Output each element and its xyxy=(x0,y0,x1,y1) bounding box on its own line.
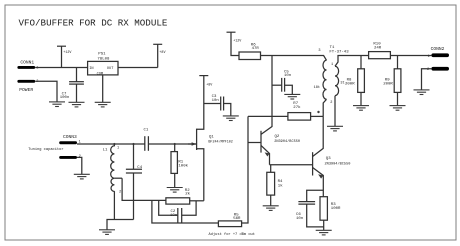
svg-text:+12V: +12V xyxy=(233,39,242,43)
svg-text:IN: IN xyxy=(89,67,93,71)
ground (C3) xyxy=(223,116,239,121)
capacitor C6 10n xyxy=(296,190,324,227)
svg-text:BF244/MPF102: BF244/MPF102 xyxy=(208,140,232,145)
svg-text:VFO/BUFFER FOR DC RX MODULE: VFO/BUFFER FOR DC RX MODULE xyxy=(19,18,168,29)
connector CONN2 xyxy=(427,46,449,72)
power +12V (left) xyxy=(57,46,72,67)
capacitor C3 10n xyxy=(204,95,231,116)
svg-text:10n: 10n xyxy=(170,214,178,218)
svg-text:FT-37-43: FT-37-43 xyxy=(329,50,349,54)
ground (Q3 emitter network) xyxy=(316,230,332,235)
regulator PS1 78L08 xyxy=(88,53,118,77)
resistor R8 200R xyxy=(345,56,364,106)
ground (CONN3 pin2) xyxy=(74,174,90,179)
power +8V (regulator output) xyxy=(153,44,166,67)
wire R5 to Q2 base riser xyxy=(242,116,248,223)
ground (R1) xyxy=(167,188,183,193)
ground (CONN2) xyxy=(414,90,430,95)
transistor Q2 2N3904 xyxy=(261,56,300,165)
svg-text:+8V: +8V xyxy=(159,51,166,55)
svg-text:1: 1 xyxy=(428,55,430,59)
svg-text:C4: C4 xyxy=(137,166,142,170)
svg-text:Tuning capacitor: Tuning capacitor xyxy=(28,147,63,152)
wire Q2 emitter to Q3 base xyxy=(270,164,313,166)
wire L1 bottom to ground rail xyxy=(107,191,134,229)
svg-text:Q3: Q3 xyxy=(326,157,331,161)
svg-text:200R: 200R xyxy=(345,82,355,86)
wire tap to source network xyxy=(122,178,166,200)
ground (C7) xyxy=(69,102,85,107)
svg-text:100n: 100n xyxy=(60,96,70,100)
svg-text:CONN3: CONN3 xyxy=(63,134,77,140)
svg-text:R4: R4 xyxy=(278,180,283,184)
ground (T1 secondary) xyxy=(327,126,343,131)
ground (regulator COM) xyxy=(95,102,111,107)
svg-text:+8V: +8V xyxy=(206,84,213,88)
svg-text:1k: 1k xyxy=(278,184,283,189)
node T1 bottom junction xyxy=(317,111,319,113)
wire CONN1 pin2 to ground xyxy=(35,81,57,102)
svg-text:10n: 10n xyxy=(212,99,220,103)
svg-text:47R: 47R xyxy=(252,47,260,51)
resistor R9 200R xyxy=(383,56,401,106)
title text xyxy=(19,18,168,29)
svg-text:100R: 100R xyxy=(331,207,341,211)
connector CONN1 xyxy=(17,59,38,93)
wire R2 right node to Q1 source xyxy=(190,200,204,202)
svg-text:Adjust for +7 dBm out: Adjust for +7 dBm out xyxy=(209,232,255,237)
svg-text:POWER: POWER xyxy=(19,87,33,93)
ground (R9) xyxy=(390,106,406,111)
wire CONN2 pin2 to ground xyxy=(422,69,432,90)
wire R6 to T1 primary top xyxy=(261,56,327,61)
capacitor C7 100n xyxy=(60,68,84,103)
node R1 junction xyxy=(174,143,176,145)
svg-text:27k: 27k xyxy=(293,105,301,110)
svg-text:+12V: +12V xyxy=(63,51,72,55)
transistor Q3 2N3904 xyxy=(313,116,351,196)
svg-text:1: 1 xyxy=(331,63,333,67)
wire T1 secondary top to attenuator xyxy=(335,56,369,67)
wire feedback rail to R7 xyxy=(248,115,288,117)
svg-text:PS1: PS1 xyxy=(98,53,106,57)
node L1 top junction xyxy=(113,143,115,145)
wire CONN3 pin2 to ground xyxy=(77,157,82,174)
transformer T1 FT-37-43 xyxy=(314,46,350,105)
svg-text:2k: 2k xyxy=(185,191,190,196)
power +12V (right) xyxy=(227,32,243,55)
svg-text:2: 2 xyxy=(330,101,332,105)
resistor R1 100k xyxy=(171,144,189,187)
wire T1 secondary bottom to ground xyxy=(334,96,336,127)
svg-text:1: 1 xyxy=(117,147,119,151)
svg-text:56R: 56R xyxy=(233,217,241,221)
power +8V (Q1 drain) xyxy=(199,76,213,104)
wire tank rail CONN3 to Q1 gate xyxy=(77,143,196,145)
svg-text:CONN2: CONN2 xyxy=(431,46,445,52)
svg-text:10n: 10n xyxy=(296,217,304,221)
ground (R4) xyxy=(263,206,279,211)
ground (R8) xyxy=(353,106,369,111)
ground (CONN1 pin2) xyxy=(49,102,65,107)
svg-text:3: 3 xyxy=(318,49,320,53)
svg-text:200R: 200R xyxy=(383,82,393,86)
svg-text:2N3904/BC550: 2N3904/BC550 xyxy=(325,161,351,166)
svg-text:24R: 24R xyxy=(374,47,382,51)
transistor Q1 BF244 JFET xyxy=(188,104,233,201)
resistor R4 1k xyxy=(267,165,283,206)
capacitor C1 xyxy=(144,128,149,150)
wire CONN1 pin1 to regulator IN xyxy=(35,67,87,69)
connector CONN3 tuning capacitor xyxy=(28,134,81,159)
wire R10 to CONN2 xyxy=(390,55,431,57)
svg-text:Q2: Q2 xyxy=(275,135,280,139)
svg-text:10n: 10n xyxy=(284,74,292,78)
svg-text:2: 2 xyxy=(119,191,121,195)
resistor R10 24R xyxy=(369,43,391,59)
resistor R6 47R xyxy=(239,43,261,59)
svg-text:100k: 100k xyxy=(178,164,188,169)
svg-text:L1: L1 xyxy=(103,149,108,153)
label adjust note xyxy=(209,232,255,237)
wire regulator OUT to +8V xyxy=(118,67,158,69)
ground (tank) xyxy=(99,230,115,235)
resistor R3 100R xyxy=(320,197,341,231)
node C4 junction xyxy=(132,143,134,145)
wire R7 to T1 bottom xyxy=(311,115,324,117)
capacitor C4 xyxy=(126,144,143,220)
wire Q2 base xyxy=(248,142,261,144)
svg-text:C1: C1 xyxy=(144,128,149,132)
svg-text:Q1: Q1 xyxy=(209,135,214,139)
wire T1 primary bottom to Q3 collector xyxy=(323,99,326,116)
svg-text:T1: T1 xyxy=(330,46,335,50)
inductor L1 xyxy=(103,144,123,195)
svg-text:18t: 18t xyxy=(314,86,320,90)
svg-text:OUT: OUT xyxy=(107,67,114,71)
svg-text:78L08: 78L08 xyxy=(97,58,110,62)
resistor R7 27k xyxy=(288,102,311,120)
ground (C5) xyxy=(284,94,300,99)
wire regulator COM to ground xyxy=(102,75,104,102)
resistor R2 xyxy=(166,189,191,204)
wire output tee down xyxy=(152,200,219,223)
resistor R5 56R xyxy=(218,213,241,226)
capacitor C5 10n xyxy=(272,70,292,94)
svg-text:CONN1: CONN1 xyxy=(20,59,34,65)
svg-text:2N3904/BC550: 2N3904/BC550 xyxy=(274,139,300,144)
capacitor C2 10n xyxy=(159,200,196,222)
